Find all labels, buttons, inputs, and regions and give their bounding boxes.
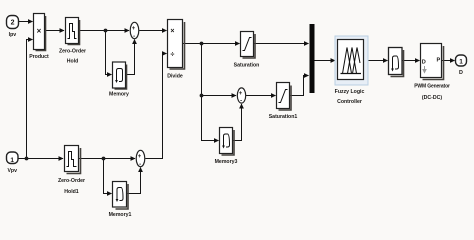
- svg-text:D: D: [422, 59, 426, 65]
- inport 2 Ipv: [7, 16, 19, 39]
- outport 1 D: [456, 55, 467, 76]
- node junction at divide output: [200, 42, 204, 46]
- svg-text:÷: ÷: [170, 51, 174, 58]
- zero-order hold block: [59, 18, 86, 65]
- saturation1 block: [269, 83, 298, 121]
- svg-text:PWM Generator: PWM Generator: [414, 84, 450, 90]
- svg-text:1: 1: [459, 59, 463, 66]
- wire Mux to Fuzzy Logic Controller: [315, 60, 336, 62]
- sum1: [130, 22, 139, 40]
- svg-text:Saturation: Saturation: [234, 63, 260, 69]
- wire branch down to Sum2: [202, 44, 237, 96]
- mux: [310, 24, 315, 93]
- wire Memory to Sum1 bottom: [126, 40, 135, 75]
- svg-text:Zero-Order: Zero-Order: [59, 49, 86, 55]
- svg-text:Zero-Order: Zero-Order: [58, 178, 85, 184]
- svg-text:Hold1: Hold1: [64, 189, 79, 195]
- svg-text:-: -: [240, 99, 242, 105]
- pwm generator block: [414, 44, 450, 102]
- wire Fuzzy Logic Controller to Memory2: [366, 60, 388, 62]
- svg-text:Vpv: Vpv: [7, 168, 17, 174]
- svg-text:Divide: Divide: [167, 74, 183, 80]
- wire Sum3 to Divide bottom input: [145, 54, 166, 159]
- svg-text:1: 1: [10, 157, 14, 164]
- wire branch down to Memory: [106, 31, 112, 75]
- svg-text:Ipv: Ipv: [9, 32, 17, 38]
- svg-text:Controller: Controller: [337, 99, 362, 105]
- sum3: [136, 150, 145, 168]
- svg-text:Saturation1: Saturation1: [269, 114, 298, 120]
- node junction after ZOH: [104, 29, 108, 33]
- wire Divide to Saturation: [183, 43, 240, 45]
- node junction after ZOH1: [102, 157, 106, 161]
- node junction at Vpv: [25, 157, 29, 161]
- svg-text:Memory3: Memory3: [215, 159, 238, 165]
- memory1 block: [109, 182, 132, 219]
- wire Sum1 to Divide: [139, 30, 166, 32]
- svg-text:-: -: [133, 34, 135, 40]
- memory3 block: [215, 128, 238, 166]
- wire Sum2 to Saturation1: [246, 95, 276, 97]
- wire Memory1 to Sum3 bottom: [127, 168, 141, 194]
- inport 1 Vpv: [7, 152, 19, 174]
- svg-text:D: D: [459, 70, 463, 76]
- product block: [29, 14, 49, 61]
- svg-text:×: ×: [37, 27, 42, 36]
- svg-text:Hold: Hold: [67, 59, 79, 65]
- svg-text:Fuzzy Logic: Fuzzy Logic: [335, 89, 365, 95]
- wire Memory2 to PWM Generator: [402, 60, 420, 62]
- memory2 block: [389, 48, 404, 77]
- svg-text:Memory1: Memory1: [109, 212, 132, 218]
- wire branch down to Memory1: [104, 159, 112, 194]
- node junction at sum2 input: [200, 94, 204, 98]
- svg-text:+: +: [138, 154, 142, 160]
- wire Memory3 to Sum2 bottom: [233, 104, 242, 141]
- saturation block: [234, 32, 260, 69]
- sum2: [237, 88, 245, 105]
- fuzzy logic controller block: [335, 36, 368, 105]
- wire Zero-Order Hold1 to Sum3: [79, 158, 136, 160]
- svg-text:+: +: [239, 91, 243, 97]
- wire Saturation1 to Mux: [290, 76, 309, 96]
- svg-text:×: ×: [170, 28, 174, 35]
- svg-text:(DC-DC): (DC-DC): [422, 95, 442, 101]
- svg-text:+: +: [132, 26, 136, 32]
- svg-text:P: P: [436, 57, 440, 63]
- wire PWM Generator to outport D: [442, 60, 455, 62]
- wire Ipv to Product: [19, 21, 33, 23]
- svg-text:Product: Product: [29, 54, 49, 60]
- wire Zero-Order Hold to Sum1: [79, 30, 130, 32]
- wire Saturation to Mux: [254, 43, 309, 45]
- svg-text:Memory: Memory: [109, 92, 129, 98]
- wire branch down to Memory3: [202, 96, 219, 141]
- zero-order hold1 block: [58, 146, 85, 196]
- wire Product to Zero-Order Hold: [45, 30, 65, 32]
- memory block: [109, 62, 129, 98]
- wire Vpv to Zero-Order Hold1: [18, 158, 63, 160]
- wire Vpv branch up to Product: [27, 40, 33, 159]
- svg-text:-: -: [139, 162, 141, 168]
- svg-text:2: 2: [11, 20, 15, 27]
- divide block: [167, 20, 184, 80]
